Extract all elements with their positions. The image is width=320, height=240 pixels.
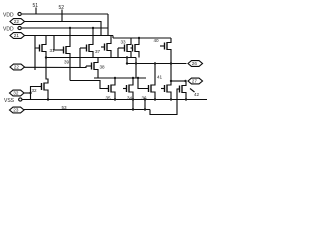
wire M36 drain riser from H8 [154,64,156,83]
svg-text:38: 38 [100,65,106,70]
wire H4 corner to right rail [112,36,114,39]
terminal 21 [10,33,25,39]
wire under-loop to VSS [150,89,177,115]
wire output rail H8 y=63.5 [127,63,187,65]
node dot on H9 x=185.5 [184,80,186,82]
svg-text:VDD: VDD [3,26,14,32]
svg-text:27: 27 [192,79,198,84]
wire M32 source to VSS [47,93,49,100]
wire M31 source to node A [45,54,47,58]
svg-text:VSS: VSS [4,98,15,104]
terminal VDD top [3,12,21,18]
wire VDD2 rail H3 y=28 [22,27,108,29]
terminal 22 upper [10,19,25,25]
wire H1 drop to right rail [107,14,109,36]
transistor M39 [60,44,70,65]
wire M36 source down [154,95,156,100]
svg-text:42: 42 [194,92,200,97]
wire M40 source down to H8 [170,52,172,64]
wire input 23 H11 [24,109,150,111]
svg-text:51: 51 [33,3,39,9]
wire M41 source down [170,95,172,100]
svg-text:39: 39 [64,60,70,65]
node dot A [45,56,47,58]
wire drain M39 to VDD dot [69,28,71,44]
transistor M40 [160,40,171,52]
node dot on H3 x=93 [92,27,94,29]
wire drain M37 to VDD dot [92,28,94,42]
wire VDD1 rail H1 y=14 [22,13,108,15]
node dot VSS x=171 [170,98,172,100]
wire input 21 H4 y=35.5 [25,35,114,37]
wire M38 source down to H-mid2 [97,72,99,78]
wire M34 drain up [132,78,134,83]
node dot on mid rail x=138 [137,77,139,79]
wire gate drop M39 [54,36,60,51]
wire VSS branch to 23-line [144,100,146,110]
wire gate branch M32 [31,87,41,100]
wire M33b drain up to H5 [130,38,132,42]
transistor M36 [106,83,115,95]
wire node A long vertical to M32 [46,58,48,81]
svg-text:35: 35 [106,96,112,101]
terminal VDD lower [3,26,21,32]
transistor M32 [40,81,48,93]
svg-text:26: 26 [192,61,198,66]
node dot gate branch [29,92,31,94]
svg-text:53: 53 [62,105,68,110]
node dot on H3 x=70 [69,27,71,29]
wire M35 source down [114,95,116,100]
transistor M37 [80,42,101,54]
svg-text:37: 37 [95,49,101,54]
svg-text:VDD: VDD [3,12,14,18]
svg-text:33: 33 [121,40,127,45]
svg-text:23: 23 [13,108,19,113]
wire M39 source down [69,56,71,81]
node dot on H8 x=127 [126,62,128,64]
wire M40 drain up to H5 [170,38,172,40]
transistor M41 [161,83,171,95]
node dot on VSS x=145 [144,98,146,100]
terminal 32 [10,90,25,96]
svg-text:40: 40 [154,38,160,43]
node dot VSS x=155 [154,98,156,100]
wire input 22b H6 y=68 [25,66,87,68]
transistor M34 [123,83,133,95]
node dot [114,77,116,79]
wire M41 drain from H8 [170,64,172,83]
wire M33a source down [110,53,112,58]
terminal 23 [10,107,25,113]
transistor M33b [118,42,131,54]
node dot [132,77,134,79]
svg-text:21: 21 [14,33,20,38]
transistor M33c [131,42,140,54]
wire M33b gate drop [117,48,119,58]
wire right VDD rail H5 y=38 [113,37,171,39]
node dot on H11 x=145 [144,108,146,110]
wire M33c drain up to H5 dot [138,38,140,42]
svg-text:52: 52 [59,5,65,11]
wire M42 drain up to H9 dot [185,81,187,83]
wire M36 gate to mid rail [138,78,149,89]
wire H7 to H8 drop [126,58,128,64]
wire M33c source down [138,54,140,58]
node dot on H8 at M41 branch [170,62,172,64]
transistor M36 lower right-mid [149,83,156,95]
wire lower node rail y=80.5 [70,81,106,89]
wire VSS rail H10 [23,99,208,101]
label 51 [33,3,39,14]
terminal VSS [4,98,22,104]
svg-text:22: 22 [14,65,20,70]
wire input 32 [24,92,31,94]
label 52 [59,5,65,22]
node dot on H11 [132,108,134,110]
transistor M38 [86,60,105,72]
terminal 26 [188,61,203,67]
terminal 27 [188,78,203,84]
svg-text:34: 34 [127,96,133,101]
svg-text:32: 32 [32,88,38,93]
wire M37 source to H7 [92,54,94,58]
transistor M31 [38,42,56,54]
wire M42 source down to VSS [185,95,187,100]
wire rail H-mid2 y=76 [94,77,146,79]
svg-text:41: 41 [157,75,163,80]
wire gate drop tail crossing 22 wire [34,48,36,70]
wire gate M37 drop [79,48,81,68]
node dot VSS x=186 [185,98,187,100]
transistor M42 right [177,83,187,95]
wire M35 drain up [114,78,116,83]
node dot VSS x=48 [47,98,49,100]
wire drain M31 up [45,36,47,43]
wire node A rail H7 y=57.5 [46,57,136,59]
wire output H9 y=81 [171,80,187,82]
wire M38 drain up to H7 [97,58,99,61]
node dot VSS x=133 [132,98,134,100]
svg-text:32: 32 [13,91,19,96]
wire M33b source down [130,54,132,58]
node dot on M41 branch at H9 [170,80,172,82]
node dot on H7 [126,56,128,58]
svg-text:22: 22 [14,19,20,24]
wire M34 source down [132,95,134,100]
node dot VSS [114,98,116,100]
wire gate drop M31 [35,36,38,49]
node dot on H8 x=155 [154,62,156,64]
transistor M33a [101,41,111,53]
wire VSS to 23-line branch [132,100,134,110]
terminal 22 middle [10,64,25,70]
wire M33a drain up [110,36,112,42]
node dot on H5 [138,37,140,39]
node dot on H8 [135,62,137,64]
wire H7 end drop to mid rail [135,58,137,79]
wire input 22 H2 y=21.5 [25,22,102,36]
